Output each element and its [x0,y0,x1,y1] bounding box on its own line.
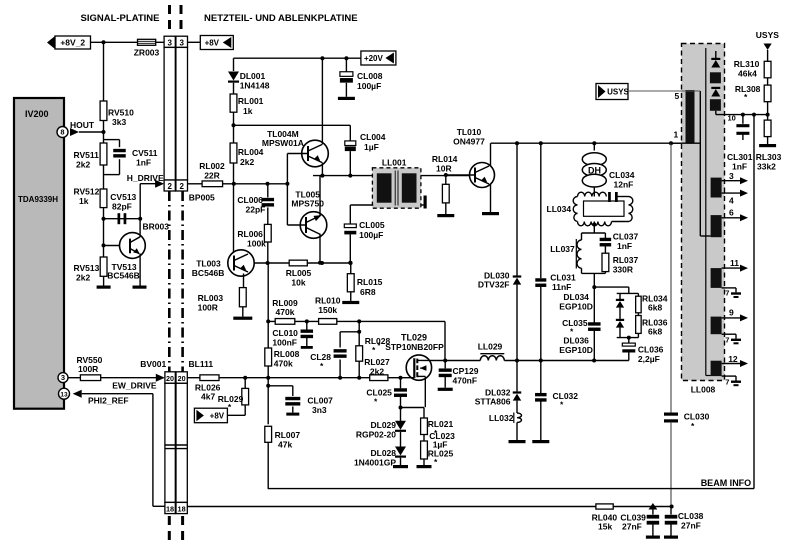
svg-text:27nF: 27nF [681,521,701,531]
svg-text:10: 10 [728,113,736,122]
svg-text:RL006: RL006 [237,229,263,239]
svg-text:100µF: 100µF [359,230,383,240]
svg-text:6R8: 6R8 [360,287,376,297]
svg-text:RL303: RL303 [756,152,782,162]
svg-text:BC546B: BC546B [107,270,140,280]
svg-text:RV510: RV510 [108,108,134,118]
svg-text:1k: 1k [79,196,89,206]
svg-text:LL008: LL008 [691,385,716,395]
svg-text:1: 1 [674,129,679,139]
svg-text:CV511: CV511 [132,148,158,158]
svg-text:LL037: LL037 [550,244,575,254]
svg-text:RL003: RL003 [198,293,224,303]
svg-text:RL001: RL001 [238,96,264,106]
svg-text:ON4977: ON4977 [453,137,485,147]
svg-text:RL008: RL008 [274,349,300,359]
svg-text:2,2µF: 2,2µF [638,354,660,364]
svg-text:CV513: CV513 [110,192,136,202]
svg-text:CL006: CL006 [237,195,263,205]
svg-text:STP10NB20FP: STP10NB20FP [385,342,444,352]
svg-text:USYS: USYS [607,88,629,97]
svg-text:STTA806: STTA806 [475,397,511,407]
svg-text:+8V_2: +8V_2 [60,38,85,48]
svg-text:CL301: CL301 [727,152,753,162]
svg-text:12: 12 [728,354,738,364]
svg-text:100nF: 100nF [272,338,297,348]
svg-text:DTV32F: DTV32F [478,280,510,290]
svg-text:RL015: RL015 [357,277,383,287]
svg-text:CL032: CL032 [553,391,579,401]
svg-text:CL037: CL037 [613,232,639,242]
svg-text:SIGNAL-PLATINE: SIGNAL-PLATINE [81,13,160,24]
svg-text:RL004: RL004 [238,147,264,157]
svg-text:TDA9339H: TDA9339H [18,195,58,204]
svg-text:CL007: CL007 [307,396,333,406]
svg-text:1µF: 1µF [364,142,379,152]
svg-text:100R: 100R [198,303,218,313]
svg-text:3n3: 3n3 [312,405,327,415]
svg-text:2k2: 2k2 [370,367,384,377]
svg-text:2k2: 2k2 [76,273,90,283]
svg-text:RL021: RL021 [428,419,454,429]
svg-text:DH: DH [588,166,601,176]
svg-text:EGP10D: EGP10D [559,302,593,312]
svg-text:EW_DRIVE: EW_DRIVE [112,380,157,390]
svg-text:2: 2 [179,182,184,191]
svg-text:1nF: 1nF [732,162,747,172]
svg-text:LL034: LL034 [547,204,572,214]
svg-text:12nF: 12nF [614,180,634,190]
svg-text:CL010: CL010 [272,328,298,338]
svg-text:11: 11 [730,258,739,268]
svg-text:BL111: BL111 [189,359,214,369]
svg-text:TL010: TL010 [457,127,482,137]
svg-text:BV001: BV001 [140,359,166,369]
svg-text:22pF: 22pF [246,205,266,215]
svg-text:330R: 330R [613,265,633,275]
svg-text:ZR003: ZR003 [134,48,160,58]
svg-text:H_DRIVE: H_DRIVE [127,173,164,183]
svg-text:150k: 150k [318,305,337,315]
svg-text:RL005: RL005 [286,268,312,278]
svg-text:LL001: LL001 [382,158,407,168]
svg-text:470k: 470k [274,359,293,369]
svg-text:3k3: 3k3 [112,117,126,127]
svg-text:EGP10D: EGP10D [559,345,593,355]
svg-text:DL001: DL001 [240,71,266,81]
svg-text:7: 7 [725,336,729,345]
svg-text:BR003: BR003 [143,222,170,232]
svg-text:6k8: 6k8 [648,327,662,337]
svg-text:BEAM INFO: BEAM INFO [701,478,752,488]
svg-text:CL025: CL025 [366,388,392,398]
svg-text:BP005: BP005 [189,193,215,203]
svg-text:15k: 15k [598,522,612,532]
svg-text:1k: 1k [243,106,253,116]
svg-text:3: 3 [179,38,184,47]
svg-text:NETZTEIL- UND ABLENKPLATINE: NETZTEIL- UND ABLENKPLATINE [204,13,358,24]
svg-text:LL029: LL029 [478,342,503,352]
svg-text:5: 5 [675,91,680,101]
svg-text:DL036: DL036 [563,336,589,346]
svg-text:+8V: +8V [210,411,225,420]
svg-text:9: 9 [729,308,734,318]
svg-text:+20V: +20V [364,54,384,63]
svg-text:IV200: IV200 [25,109,49,119]
svg-text:BC546B: BC546B [192,268,225,278]
svg-text:RL027: RL027 [364,357,390,367]
svg-text:7: 7 [725,289,729,298]
svg-text:6k8: 6k8 [648,303,662,313]
svg-text:RL308: RL308 [735,84,761,94]
svg-text:4: 4 [729,196,734,206]
svg-text:CP129: CP129 [453,366,479,376]
svg-text:3: 3 [167,38,172,47]
svg-text:27nF: 27nF [622,522,642,532]
svg-text:CL036: CL036 [638,345,664,355]
svg-text:10k: 10k [291,278,305,288]
svg-text:2k2: 2k2 [240,157,254,167]
svg-text:1nF: 1nF [136,158,151,168]
svg-text:CL031: CL031 [550,273,576,283]
svg-text:CL008: CL008 [357,71,383,81]
svg-text:2: 2 [167,182,172,191]
svg-text:33k2: 33k2 [757,162,776,172]
svg-text:47k: 47k [278,440,292,450]
svg-text:100R: 100R [78,364,98,374]
svg-text:RL025: RL025 [428,449,454,459]
svg-text:CL005: CL005 [359,220,385,230]
svg-text:20: 20 [166,374,174,383]
svg-text:100µF: 100µF [357,81,381,91]
svg-text:100k: 100k [247,239,266,249]
svg-text:8: 8 [60,128,64,137]
svg-text:LL032: LL032 [489,413,514,423]
svg-text:46k4: 46k4 [738,69,757,79]
svg-text:RGP02-20: RGP02-20 [356,429,396,439]
svg-text:20: 20 [178,374,186,383]
svg-text:RL002: RL002 [199,161,225,171]
svg-text:1N4001GP: 1N4001GP [354,457,396,467]
svg-text:MPSW01A: MPSW01A [262,138,304,148]
svg-text:RV512: RV512 [74,187,100,197]
svg-text:18: 18 [166,505,174,514]
svg-text:3: 3 [61,373,65,382]
svg-text:+8V: +8V [205,39,220,48]
svg-text:470nF: 470nF [453,376,478,386]
svg-text:82pF: 82pF [112,202,132,212]
svg-text:1nF: 1nF [617,241,632,251]
svg-text:RV513: RV513 [74,263,100,273]
svg-text:10R: 10R [436,164,452,174]
svg-text:1N4148: 1N4148 [240,81,270,91]
svg-text:CL038: CL038 [678,511,704,521]
svg-text:RL010: RL010 [315,296,341,306]
svg-text:RV511: RV511 [74,150,100,160]
svg-text:PHI2_REF: PHI2_REF [88,395,129,405]
svg-text:22R: 22R [204,171,220,181]
svg-text:TL003: TL003 [196,259,221,269]
svg-text:3: 3 [729,171,734,181]
svg-text:DL034: DL034 [563,292,589,302]
svg-text:CL004: CL004 [360,132,386,142]
svg-text:6: 6 [729,208,734,218]
svg-text:HOUT: HOUT [70,120,95,130]
svg-text:11nF: 11nF [552,282,571,292]
svg-text:CL030: CL030 [684,412,710,422]
svg-text:470k: 470k [276,307,295,317]
svg-text:RL014: RL014 [432,154,458,164]
svg-text:RL037: RL037 [613,255,639,265]
svg-text:2k2: 2k2 [76,160,90,170]
svg-text:CL034: CL034 [609,170,635,180]
svg-text:13: 13 [60,391,68,398]
svg-text:RL007: RL007 [275,430,301,440]
svg-text:CL035: CL035 [562,318,588,328]
svg-text:7: 7 [725,378,729,387]
svg-text:USYS: USYS [756,30,779,40]
svg-text:4k7: 4k7 [201,392,215,402]
svg-text:18: 18 [178,505,186,514]
svg-text:RL310: RL310 [734,59,760,69]
